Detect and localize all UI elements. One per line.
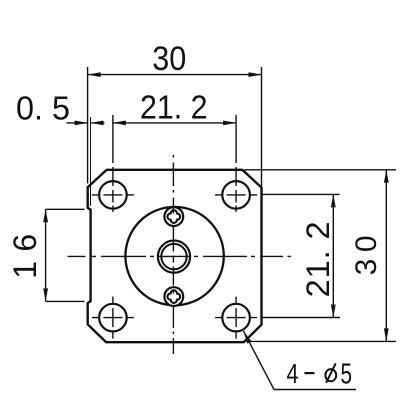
- arrowheads: [43, 72, 389, 343]
- screw S1 circle (top): [164, 207, 183, 226]
- phi symbol: [325, 363, 336, 383]
- dimension 21.2 right: extension lines: [263, 194, 341, 317]
- hole H2 center cross: [215, 190, 257, 212]
- big central boss circle: [125, 207, 223, 305]
- screw S2 circle (bottom): [164, 287, 183, 306]
- hole H4 center cross: [215, 297, 257, 339]
- plate horizontal centerline: [68, 255, 292, 257]
- centerlines: [68, 155, 292, 354]
- leader line for 4-phi5: [243, 331, 356, 390]
- dimension 21.2 right: dimension line: [332, 194, 334, 317]
- dim 21.2 right arrows: [331, 194, 336, 207]
- dim 16 arrows: [43, 209, 48, 222]
- svg-text:21. 2: 21. 2: [300, 221, 336, 297]
- dimension 30 right: extension lines: [245, 170, 397, 342]
- dimension 16 left: extension lines: [46, 209, 85, 301]
- dimension 30 top: dimension line: [88, 74, 262, 76]
- dim 21.2 top arrows: [113, 121, 126, 126]
- svg-text:30: 30: [152, 40, 186, 78]
- svg-text:0. 5: 0. 5: [16, 90, 70, 127]
- corner hole H4 bottom-right: [222, 304, 250, 332]
- screw S1 phillips recess: [167, 210, 180, 223]
- dimension 30 top: extension lines: [88, 67, 262, 186]
- corner hole H3 bottom-left: [99, 304, 127, 332]
- plate outline (chamfered square flange with 0.5 step on left edge): [88, 170, 262, 342]
- screw S2 phillips recess: [167, 290, 180, 303]
- dimension 0.5: second extension line: [90, 117, 92, 206]
- dimension 16 left: dimension line: [45, 209, 47, 301]
- dim 0.5 outside arrows: [75, 121, 88, 126]
- svg-text:5: 5: [341, 359, 353, 391]
- corner hole H1 top-left: [99, 181, 127, 209]
- corner hole H2 top-right: [222, 181, 250, 209]
- dim 30 right arrows: [384, 170, 389, 183]
- dimension 21.2 top: extension lines down to hole centers: [113, 115, 236, 186]
- dimension 30 right: dimension line: [385, 170, 387, 342]
- dim 30 top arrows: [88, 72, 101, 77]
- central hole outer ring: [158, 241, 190, 273]
- dimension 21.2 top: dimension line: [113, 122, 236, 124]
- hole H3 center cross: [92, 297, 134, 339]
- dimension 0.5: outside arrow tails: [67, 122, 105, 124]
- central hole inner circle: [161, 244, 186, 269]
- hole H1 center cross: [92, 190, 134, 212]
- leader arrowhead: [241, 330, 251, 344]
- svg-text:4: 4: [287, 358, 299, 389]
- svg-text:21. 2: 21. 2: [140, 88, 208, 125]
- plate vertical centerline: [172, 155, 174, 354]
